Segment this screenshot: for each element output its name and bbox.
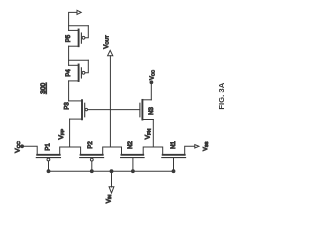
svg-text:P3: P3 (64, 102, 70, 110)
wire P3 drain to node (69, 146, 71, 148)
junction dot N2 gate (132, 170, 135, 173)
transistor P1 (36, 147, 80, 171)
svg-text:VFP: VFP (58, 129, 66, 140)
wire gate interconnect (88, 109, 140, 111)
transistor N2 (121, 147, 163, 171)
transistor P4 (69, 65, 85, 82)
svg-text:P5: P5 (66, 34, 72, 42)
wire (69, 119, 71, 147)
wire (85, 26, 88, 38)
svg-text:VSS: VSS (203, 141, 209, 151)
VIN terminal (109, 171, 114, 193)
wire (152, 120, 154, 147)
svg-text:300: 300 (40, 82, 47, 93)
wire (69, 25, 89, 27)
transistor N1 (162, 146, 195, 171)
svg-text:N1: N1 (171, 141, 177, 149)
transistor N3 (140, 100, 153, 120)
junction dot N1 gate (172, 170, 175, 173)
svg-text:P4: P4 (66, 69, 72, 77)
junction dot VIN tap (110, 170, 113, 173)
transistor P2 (80, 147, 122, 171)
svg-text:N2: N2 (128, 141, 134, 149)
junction dot P1 gate (47, 170, 50, 173)
transistor P5 (69, 30, 85, 47)
svg-text:FIG. 3A: FIG. 3A (217, 82, 226, 109)
wire (85, 60, 88, 73)
svg-text:VOUT: VOUT (103, 35, 110, 49)
svg-text:N3: N3 (149, 107, 155, 115)
Vcc terminal at N3 (150, 81, 153, 84)
transistor P3 (69, 100, 88, 119)
Vcc terminal left (21, 145, 24, 148)
wire (22, 146, 37, 154)
VOUT terminal (108, 50, 113, 146)
svg-text:VIN: VIN (105, 195, 112, 204)
supply arrow terminal (top) (69, 10, 82, 30)
junction dot P2 gate (90, 170, 93, 173)
wire (69, 59, 89, 61)
svg-text:VCC: VCC (14, 141, 22, 153)
gate rail wire (49, 170, 174, 172)
wire (68, 46, 70, 65)
svg-text:P1: P1 (46, 143, 52, 151)
wire (150, 83, 152, 100)
svg-text:VCC: VCC (150, 70, 156, 80)
wire (68, 81, 70, 101)
Vss terminal arrow (195, 145, 199, 148)
svg-text:P2: P2 (88, 141, 94, 149)
svg-text:VFN: VFN (145, 128, 153, 139)
